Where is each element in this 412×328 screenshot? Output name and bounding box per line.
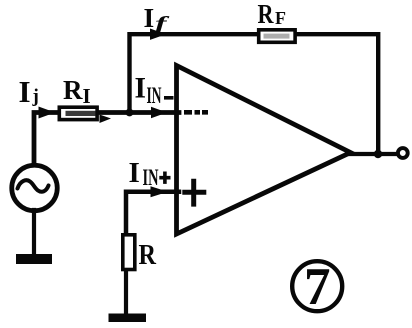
svg-text:I: I (19, 74, 31, 109)
svg-text:F: F (275, 8, 286, 28)
svg-text:j: j (32, 86, 39, 107)
svg-text:7: 7 (304, 258, 331, 316)
svg-text:R: R (63, 75, 83, 105)
svg-text:R: R (139, 240, 157, 271)
svg-text:I: I (129, 157, 140, 189)
svg-text:I: I (83, 84, 91, 108)
svg-text:IN: IN (147, 83, 162, 108)
svg-text:I: I (135, 73, 146, 105)
svg-text:I: I (144, 2, 155, 33)
svg-text:IN: IN (143, 165, 159, 190)
svg-text:R: R (258, 0, 274, 29)
